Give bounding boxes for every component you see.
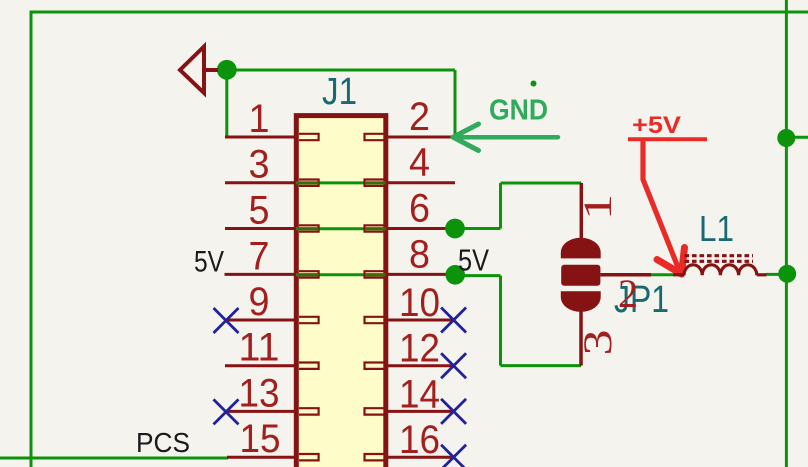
svg-text:7: 7	[249, 234, 270, 278]
svg-text:2: 2	[409, 95, 430, 139]
svg-text:13: 13	[239, 371, 280, 415]
svg-text:3: 3	[249, 143, 270, 187]
svg-text:10: 10	[399, 281, 440, 325]
svg-text:6: 6	[409, 187, 430, 231]
svg-text:3: 3	[575, 330, 620, 356]
svg-text:1: 1	[575, 194, 620, 220]
svg-text:5: 5	[249, 189, 270, 233]
svg-text:PCS: PCS	[136, 427, 190, 458]
svg-text:4: 4	[409, 141, 430, 185]
svg-text:2: 2	[618, 271, 638, 316]
svg-text:12: 12	[399, 327, 440, 371]
svg-text:+5V: +5V	[632, 112, 681, 139]
svg-text:11: 11	[239, 326, 280, 370]
svg-text:5V: 5V	[458, 243, 489, 278]
svg-text:9: 9	[249, 280, 270, 324]
svg-text:1: 1	[249, 97, 270, 141]
svg-text:15: 15	[240, 417, 281, 461]
svg-text:5V: 5V	[194, 246, 224, 279]
svg-text:14: 14	[399, 372, 440, 416]
svg-text:8: 8	[409, 232, 430, 276]
svg-text:GND: GND	[489, 95, 548, 127]
svg-text:J1: J1	[322, 71, 357, 113]
svg-text:L1: L1	[699, 208, 734, 249]
svg-text:16: 16	[399, 418, 440, 462]
